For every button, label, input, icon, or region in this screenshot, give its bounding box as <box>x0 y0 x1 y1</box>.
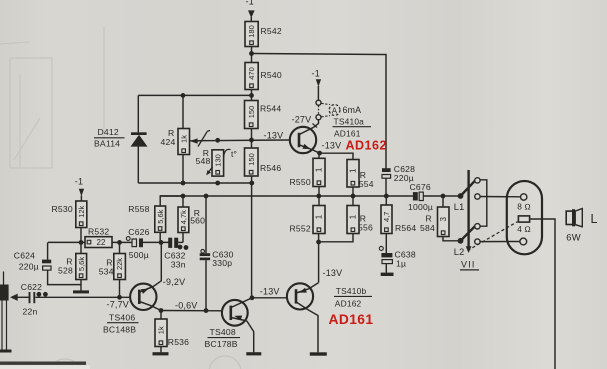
capacitor C632 <box>164 238 185 270</box>
svg-text:-13V: -13V <box>323 268 343 278</box>
diode D412 <box>94 127 148 148</box>
svg-text:-1: -1 <box>75 177 83 187</box>
svg-text:R532: R532 <box>88 227 109 237</box>
svg-text:4 Ω: 4 Ω <box>517 225 531 234</box>
svg-text:22n: 22n <box>23 307 38 317</box>
svg-text:500µ: 500µ <box>129 250 149 260</box>
capacitor C624 <box>14 251 51 272</box>
wire top rail to C628 column <box>252 54 387 169</box>
resistor R584 <box>420 207 449 237</box>
svg-text:22k: 22k <box>115 258 124 270</box>
node R548 top <box>215 138 220 143</box>
svg-text:534: 534 <box>99 267 114 277</box>
svg-text:4,7: 4,7 <box>382 212 391 222</box>
svg-text:1: 1 <box>349 214 358 219</box>
svg-text:-0,6V: -0,6V <box>175 301 198 311</box>
wire TS408 collector <box>243 298 252 302</box>
svg-text:584: 584 <box>420 223 435 233</box>
svg-text:R536: R536 <box>168 337 189 347</box>
svg-text:150: 150 <box>247 153 256 166</box>
svg-text:4,7k: 4,7k <box>179 210 188 224</box>
wire bias row <box>48 241 85 243</box>
wire R552/R556 bottoms to TS410b <box>319 234 353 283</box>
main output line y196 <box>160 195 461 197</box>
tap 4 ohm <box>517 225 531 245</box>
capacitor C622 <box>21 282 42 317</box>
wire R534 stubs <box>119 242 121 297</box>
svg-text:R546: R546 <box>260 163 281 173</box>
svg-text:560: 560 <box>190 216 205 226</box>
label -13V (TS410a base) <box>264 131 284 141</box>
capacitor C630 <box>200 249 234 268</box>
wire R536 stub <box>160 311 162 320</box>
resistor R550 <box>290 158 326 187</box>
svg-text:528: 528 <box>58 266 73 276</box>
svg-text:1: 1 <box>315 214 324 219</box>
svg-text:-13V: -13V <box>264 131 284 141</box>
input arrow <box>10 294 18 301</box>
wire R544-R546 <box>251 129 253 149</box>
svg-text:R530: R530 <box>52 204 73 214</box>
wire R564 to C638 <box>385 234 387 254</box>
svg-text:-27V: -27V <box>292 115 312 125</box>
supply -1 (top) <box>246 0 255 22</box>
svg-text:470: 470 <box>247 67 256 80</box>
switch contact 1 <box>475 178 480 183</box>
svg-text:L1: L1 <box>454 202 465 212</box>
resistor R558 <box>128 204 165 232</box>
wire TS406 emitter junction <box>151 306 161 311</box>
wire C628 to main line <box>385 179 387 197</box>
svg-text:TS406: TS406 <box>109 313 135 323</box>
svg-text:554: 554 <box>359 179 374 189</box>
wire R530 bottom <box>80 228 82 254</box>
svg-text:TS410b: TS410b <box>336 286 367 296</box>
svg-text:424: 424 <box>161 137 176 147</box>
svg-text:BC178B: BC178B <box>205 339 238 349</box>
label TS410b / AD162 <box>334 286 372 309</box>
svg-text:AD161: AD161 <box>329 312 374 327</box>
svg-text:1k: 1k <box>179 135 188 143</box>
wire plug to speaker return <box>530 219 555 369</box>
svg-text:1: 1 <box>349 168 358 173</box>
svg-text:R558: R558 <box>128 204 149 214</box>
wire C630 column <box>205 196 207 311</box>
switch contact 2 <box>475 194 480 199</box>
ground (R528) <box>73 290 89 293</box>
node R560 top <box>181 194 186 199</box>
svg-text:130: 130 <box>213 154 222 167</box>
label -9,2V <box>163 277 186 287</box>
transistor TS408 <box>222 300 248 326</box>
capacitor C628 <box>382 164 415 183</box>
wire TS410b emitter-top <box>309 283 319 289</box>
node junction y183 rail <box>249 181 254 186</box>
wire R556 top <box>352 196 354 206</box>
wire R546 bottom long vertical <box>251 176 253 298</box>
svg-text:33n: 33n <box>171 259 186 269</box>
svg-text:TS410a: TS410a <box>334 117 365 127</box>
resistor R556 <box>347 206 373 234</box>
wire TS408 emitter to ground <box>247 321 254 352</box>
wire top loop y95 <box>138 94 251 96</box>
wire diode column <box>137 95 139 183</box>
svg-text:5,6k: 5,6k <box>77 257 86 271</box>
node R552/R556 junction <box>316 240 321 245</box>
node R584 top <box>441 194 446 199</box>
wire emitter to R550/R554 <box>312 150 353 160</box>
resistor R560 <box>178 207 205 233</box>
svg-text:BC148B: BC148B <box>103 325 136 335</box>
svg-text:t°: t° <box>231 149 237 159</box>
node bias junction <box>79 240 84 245</box>
switch coupling bar <box>466 170 472 253</box>
svg-text:C622: C622 <box>21 282 42 292</box>
wire C622 to base <box>36 296 131 298</box>
wire R528 to ground <box>80 280 82 291</box>
resistor R544 <box>245 101 282 129</box>
ground (TS410b) <box>310 352 327 355</box>
capacitor C676 <box>408 182 433 212</box>
annotation AD162 (red) <box>346 139 387 153</box>
svg-text:220µ: 220µ <box>19 262 39 272</box>
node C630 bottom <box>204 308 209 313</box>
input terminal bar <box>0 350 12 353</box>
wire R552 top <box>318 196 320 206</box>
svg-text:180: 180 <box>247 25 256 38</box>
label -13V (TS410b base) <box>260 287 280 297</box>
resistor R564 <box>381 205 416 234</box>
svg-text:6mA: 6mA <box>343 105 362 115</box>
switch L2 pole <box>454 226 475 257</box>
label VII <box>460 260 479 270</box>
svg-text:150: 150 <box>247 106 256 119</box>
svg-text:R540: R540 <box>261 70 282 80</box>
ammeter A 6mA <box>322 103 362 116</box>
svg-text:1: 1 <box>315 167 324 172</box>
svg-text:L2: L2 <box>454 247 465 257</box>
svg-text:-9,2V: -9,2V <box>163 277 186 287</box>
node R550/R552 <box>316 194 321 199</box>
label -13V (TS410b collector) <box>323 268 343 278</box>
ground (R536) <box>153 352 169 355</box>
resistor R546 <box>245 148 282 176</box>
node emitter junction <box>317 151 322 156</box>
transistor TS410b <box>287 283 313 309</box>
node R548 bottom <box>215 181 220 186</box>
node -9,2V junction <box>159 240 164 245</box>
capacitor C638 <box>379 246 416 268</box>
resistor R530 <box>52 201 87 228</box>
plug contact <box>518 216 529 222</box>
svg-text:L: L <box>591 212 598 226</box>
wire R540-R544 <box>251 90 253 101</box>
label -7,7V <box>107 300 130 310</box>
transistor TS410a <box>290 120 319 154</box>
wire contact2 to 8ohm tap <box>480 196 520 198</box>
wire y183 rail <box>138 182 252 184</box>
node C630 top <box>204 194 209 199</box>
resistor R532 <box>85 227 112 248</box>
svg-text:548: 548 <box>196 156 211 166</box>
svg-text:-1: -1 <box>312 69 320 79</box>
wire C626 to C632 <box>143 241 169 243</box>
switch L1 pole <box>454 181 475 212</box>
svg-text:556: 556 <box>358 223 373 233</box>
switch contact 4 <box>475 239 480 244</box>
wire R560 top stub <box>182 196 184 207</box>
wire R536 to ground <box>160 347 162 353</box>
svg-text:6W: 6W <box>566 231 580 242</box>
resistor R540 <box>245 63 282 90</box>
wire R550 bottom <box>318 187 320 197</box>
label -13V (TS410a emitter) <box>322 141 342 151</box>
svg-text:330p: 330p <box>212 258 232 268</box>
svg-text:-7,7V: -7,7V <box>107 300 130 310</box>
capacitor C626 <box>126 227 149 260</box>
label TS410a / AD161 <box>333 117 372 139</box>
wire R558 top corner <box>160 196 183 206</box>
svg-text:AD162: AD162 <box>346 139 387 153</box>
wire TS406 collector to -9,2V node <box>153 242 161 286</box>
wire input to C622 <box>18 296 29 298</box>
svg-text:R: R <box>426 214 432 224</box>
resistor R552 <box>290 206 326 234</box>
dashed link L2 to plug <box>468 222 518 251</box>
svg-text:R550: R550 <box>290 177 311 187</box>
wire base rail y140 <box>190 139 291 142</box>
wire R558 bottom stub <box>159 232 161 242</box>
node junction R542/R540 <box>249 51 254 56</box>
tap 8 ohm <box>517 194 531 212</box>
node R424 bottom <box>181 181 186 186</box>
meter break contacts <box>316 100 321 120</box>
wire R532 to C626 <box>112 241 132 243</box>
thermistor R548 <box>196 148 238 176</box>
svg-text:-1: -1 <box>246 0 254 7</box>
svg-text:3: 3 <box>439 216 448 221</box>
svg-text:C626: C626 <box>128 227 149 237</box>
svg-text:R564: R564 <box>395 223 416 233</box>
wire R424 stubs <box>182 95 184 183</box>
svg-text:AD161: AD161 <box>334 129 361 139</box>
node TS406 emitter <box>159 308 164 313</box>
transistor TS406 <box>130 284 156 310</box>
input connector (cut at edge) <box>0 272 9 350</box>
connector oval <box>507 181 542 254</box>
svg-text:D412: D412 <box>98 127 119 137</box>
svg-text:12k: 12k <box>77 205 86 217</box>
svg-text:R542: R542 <box>261 26 282 36</box>
wire contact bracket 1-3 <box>480 180 487 226</box>
svg-text:AD162: AD162 <box>335 299 362 309</box>
wire R584 stubs <box>443 196 461 241</box>
svg-text:-13V: -13V <box>260 287 280 297</box>
svg-text:8 Ω: 8 Ω <box>517 202 531 211</box>
annotation AD161 (red) <box>329 312 374 327</box>
svg-text:A: A <box>332 106 338 115</box>
wire C624 branch <box>48 242 81 284</box>
svg-text:VII: VII <box>461 260 476 270</box>
wire -0,6V line <box>161 310 222 312</box>
node R534 bottom junction <box>117 295 122 300</box>
svg-text:1000µ: 1000µ <box>408 202 433 212</box>
svg-text:BA114: BA114 <box>94 138 120 148</box>
svg-text:C676: C676 <box>410 182 431 192</box>
wire R542-R540 <box>251 47 253 63</box>
resistor R554 <box>347 160 374 190</box>
node junction R540/R544/D412-rail <box>249 93 254 98</box>
supply -1 (R530) <box>75 177 84 202</box>
svg-text:-13V: -13V <box>322 141 342 151</box>
wire TS410b base <box>252 297 287 299</box>
ground (C638) <box>381 273 394 276</box>
wire TS410b lower to ground <box>308 310 318 353</box>
supply -1 (meter) <box>312 69 322 101</box>
node R532 right / R534 top <box>117 240 122 245</box>
wire C632 to R560 <box>178 233 183 243</box>
node base rail junction <box>249 138 254 143</box>
wire C638 to ground <box>385 264 387 273</box>
label -27V with pointer <box>292 115 318 128</box>
svg-text:1k: 1k <box>157 326 166 334</box>
node marks on input line <box>37 292 48 297</box>
node R424 top <box>181 93 186 98</box>
wire R564 top <box>385 196 387 205</box>
wire contact4 to 4ohm tap <box>480 241 520 243</box>
svg-text:TS408: TS408 <box>210 327 236 337</box>
svg-text:1µ: 1µ <box>396 259 406 269</box>
label TS406 / BC148B <box>103 313 139 335</box>
resistor R536 <box>155 319 189 347</box>
label TS408 / BC178B <box>205 327 241 349</box>
resistor R528 <box>58 254 87 280</box>
svg-text:5,6k: 5,6k <box>156 209 165 223</box>
resistor R542 <box>245 22 282 47</box>
svg-text:C624: C624 <box>14 251 35 261</box>
ground (TS408) <box>246 352 261 355</box>
resistor R534 <box>99 254 126 280</box>
svg-text:22: 22 <box>97 238 106 247</box>
svg-text:R552: R552 <box>290 224 311 234</box>
wire R554 bottom <box>352 187 354 196</box>
node marks at C632 <box>178 245 189 250</box>
trimmer R424 <box>161 128 211 155</box>
label -0,6V <box>175 301 198 311</box>
svg-text:R544: R544 <box>260 104 281 114</box>
node R564/C628 <box>384 194 389 199</box>
node TS408 collector junction <box>250 295 255 300</box>
node R554/R556 <box>351 194 356 199</box>
switch contact 3 <box>475 224 480 229</box>
loudspeaker L 6W <box>566 209 597 243</box>
